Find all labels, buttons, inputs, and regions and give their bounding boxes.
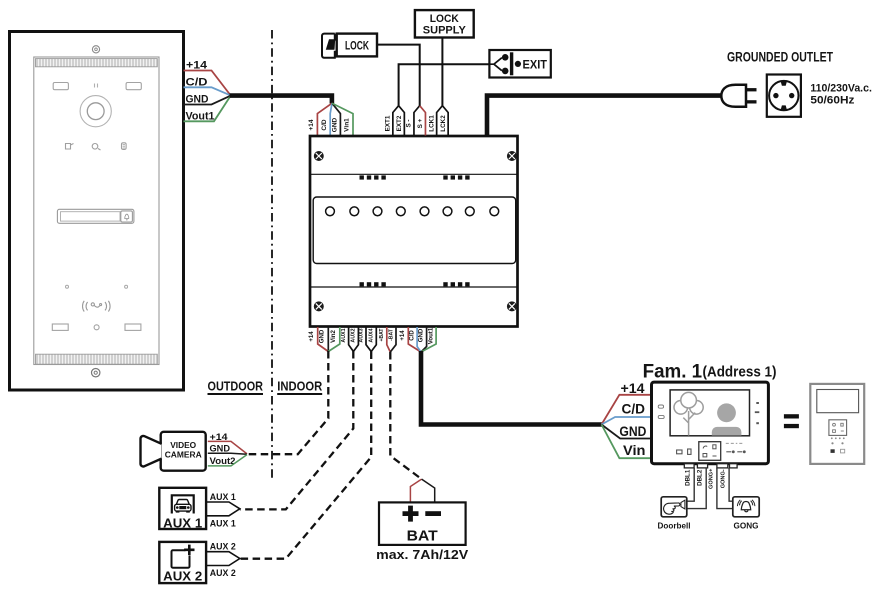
svg-text:INDOOR: INDOOR: [277, 380, 322, 394]
wire: thick door bus to central unit: [230, 96, 332, 104]
svg-text:AUX 2: AUX 2: [163, 568, 202, 583]
door station speaker slots: [53, 83, 141, 90]
wire EXT pair to EXIT button: [399, 64, 490, 106]
wire: thick bus unit to monitor: [421, 351, 602, 425]
EXIT push-button icon: [489, 52, 521, 75]
monitor labels +14 C/D GND Vin: [619, 381, 646, 458]
wire Vout1 green from door station: [184, 96, 231, 121]
wire fan into unit top: C/D blue: [330, 103, 332, 135]
LOCK box: [337, 34, 377, 57]
screen tree graphic: [674, 392, 703, 435]
battery - black lead: [422, 479, 435, 502]
unit bottom divider line: [311, 286, 517, 288]
monitor wire +14 red: [602, 395, 652, 425]
door station name plate with bell button: [57, 209, 133, 223]
svg-text:C/D: C/D: [622, 401, 646, 416]
svg-text:SUPPLY: SUPPLY: [423, 25, 467, 37]
wire fan into unit top: GND black: [332, 103, 340, 135]
wire +14 red from door station: [184, 71, 231, 96]
unit top vent slots: [360, 175, 470, 179]
svg-text:GND: GND: [619, 424, 646, 439]
svg-text:+14: +14: [399, 330, 406, 341]
AUX1 flag terminal: [207, 502, 240, 516]
mains plug icon: [721, 85, 756, 107]
svg-text:C/D: C/D: [408, 330, 415, 341]
battery BAT box: [379, 502, 466, 545]
svg-text:LCK2: LCK2: [440, 115, 447, 132]
outdoor/indoor divider dash-dot line: [271, 30, 273, 478]
svg-text:AUX 1: AUX 1: [210, 518, 236, 528]
svg-text:LOCK: LOCK: [430, 13, 459, 25]
battery + red lead: [410, 479, 421, 502]
svg-text:Vout1: Vout1: [427, 327, 434, 344]
monitor screen: [670, 390, 749, 436]
GONG box: [733, 497, 759, 517]
dashed wire unit to video camera: [247, 351, 328, 454]
monitor button console: [699, 442, 721, 461]
wire DBL1: [687, 468, 694, 501]
terminal pair EXT1/EXT2: [393, 106, 405, 136]
camera labels +14 GND Vout2: [210, 432, 236, 466]
camera wire Vout2 green: [208, 455, 247, 466]
svg-text:GND: GND: [210, 444, 231, 454]
svg-text:+14: +14: [210, 432, 229, 442]
unit cover plate: [313, 197, 516, 264]
wire LCK pair to LOCK SUPPLY: [441, 37, 443, 106]
EXIT button box: [489, 50, 550, 78]
svg-text:Doorbell: Doorbell: [658, 521, 691, 531]
AUX2 flag terminal: [207, 552, 240, 566]
svg-text:+14: +14: [621, 381, 645, 396]
unit bottom vent slots: [360, 282, 470, 286]
monitor right buttons: [726, 443, 745, 452]
video camera box: [161, 432, 206, 471]
wire fan into unit top: +14 red: [317, 103, 332, 135]
monitor right markers: [755, 402, 760, 424]
svg-text:+14: +14: [308, 119, 315, 130]
door station top screw: [92, 46, 99, 53]
svg-text:AUX 2: AUX 2: [210, 542, 236, 552]
family monitor M1: [652, 382, 769, 464]
svg-text:+14: +14: [308, 331, 315, 342]
gong bell icon: [737, 500, 754, 512]
labels DBL1 DBL2 GONG+ GONG-: [685, 468, 727, 489]
svg-text:VIDEO: VIDEO: [170, 440, 196, 450]
unit bottom terminal group AUX1/AUX2: [349, 327, 359, 352]
AUX 2 add-device icon: [172, 545, 195, 568]
wire GND black from door station: [184, 96, 231, 105]
svg-text:Vin1: Vin1: [344, 118, 351, 132]
svg-text:max. 7Ah/12V: max. 7Ah/12V: [376, 547, 468, 562]
svg-text:LOCK: LOCK: [345, 41, 370, 53]
svg-text:AUX 1: AUX 1: [210, 492, 236, 502]
svg-text:Vin: Vin: [623, 443, 646, 458]
equals sign: [784, 414, 799, 418]
terminal pair LCK1/LCK2: [437, 106, 449, 136]
monitor bottom terminal tabs: [684, 464, 737, 468]
grounded outlet icon: [767, 75, 801, 117]
M2 lower buttons: [831, 449, 835, 453]
monitor side buttons: [677, 449, 691, 454]
svg-text:+BAT: +BAT: [379, 328, 385, 342]
door station outdoor panel: [10, 32, 184, 391]
battery plus symbol: [403, 506, 419, 522]
svg-text:GND: GND: [331, 117, 338, 132]
svg-text:AUX1: AUX1: [341, 328, 347, 342]
door station small holes: [66, 285, 128, 288]
unit bottom terminal group AUX3/AUX4: [366, 327, 376, 352]
svg-text:GND: GND: [318, 329, 325, 343]
Doorbell box: [661, 497, 687, 517]
door station camera lens: [80, 96, 111, 127]
LOCK SUPPLY box: [415, 10, 474, 37]
unit bottom terminal group +14/C/D/GND/Vout1: [408, 327, 436, 352]
doorbell hand icon: [664, 500, 685, 514]
unit bottom terminal group +BAT/-BAT: [387, 327, 396, 352]
monitor speaker slots: [658, 405, 664, 419]
svg-text:(Address 1): (Address 1): [703, 365, 777, 381]
AUX 2 box: [159, 542, 206, 583]
AUX 1 box: [159, 488, 206, 529]
alternative monitor M2: [810, 384, 864, 464]
svg-text:-BAT: -BAT: [389, 328, 395, 341]
wire C/D blue from door station: [184, 87, 231, 95]
camera wire GND black: [208, 452, 247, 455]
svg-text:BAT: BAT: [407, 529, 438, 545]
svg-text:S +: S +: [417, 118, 424, 128]
svg-text:AUX4: AUX4: [368, 328, 374, 342]
door bus labels +14 C/D GND Vout1: [186, 60, 215, 123]
svg-text:GONG: GONG: [734, 521, 759, 531]
monitor wire GND black: [602, 425, 652, 439]
monitor wire C/D blue: [602, 417, 652, 425]
svg-text:AUX 2: AUX 2: [210, 568, 236, 578]
battery minus symbol: [425, 511, 441, 516]
svg-text:AUX3: AUX3: [358, 328, 364, 342]
svg-text:Fam. 1: Fam. 1: [643, 360, 703, 382]
dashed wire unit to AUX1: [240, 351, 353, 509]
svg-text:DBL1: DBL1: [685, 469, 692, 486]
svg-text:EXT2: EXT2: [396, 115, 403, 131]
wire GONG-: [729, 468, 733, 501]
unit top divider line: [311, 173, 517, 175]
dashed wire unit to battery: [390, 352, 421, 479]
svg-text:50/60Hz: 50/60Hz: [810, 95, 854, 107]
door station indicator icons: [66, 143, 127, 150]
terminal pair S-/S+: [414, 106, 426, 136]
monitor wire Vin green: [602, 425, 652, 459]
wire: mains cable from unit to plug: [487, 96, 723, 136]
svg-text:EXT1: EXT1: [385, 115, 392, 131]
M2 button pad: [829, 420, 847, 436]
door station lower slots: [52, 324, 141, 330]
svg-text:LCK1: LCK1: [428, 115, 435, 132]
svg-text:C/D: C/D: [321, 119, 328, 131]
lock strike icon: [322, 34, 335, 58]
wire GONG+: [717, 468, 733, 509]
M2 small markers: [831, 437, 845, 444]
unit corner screws: [314, 151, 517, 311]
svg-text:OUTDOOR: OUTDOOR: [208, 380, 264, 394]
svg-text:EXIT: EXIT: [523, 59, 548, 71]
svg-text:AUX2: AUX2: [351, 328, 357, 342]
camera wire +14 red: [208, 441, 247, 454]
svg-text:AUX 1: AUX 1: [163, 515, 202, 530]
svg-text:GONG+: GONG+: [708, 468, 714, 489]
door station NFC reader icon: [83, 301, 111, 312]
central control unit U1: [310, 136, 518, 327]
svg-text:S -: S -: [406, 119, 413, 127]
door station bottom screw: [92, 369, 100, 377]
svg-text:GND: GND: [417, 328, 424, 342]
unit top terminal labels +14 C/D GND Vin1: [308, 117, 351, 132]
svg-text:DBL2: DBL2: [697, 469, 704, 486]
screen visitor avatar: [712, 403, 742, 435]
svg-text:110/230Va.c.: 110/230Va.c.: [810, 83, 872, 95]
video camera lens cone: [140, 436, 161, 467]
wire DBL2: [687, 468, 706, 509]
unit bottom terminal group +14/GND/Vin2: [318, 327, 340, 352]
wire S pair to LOCK: [377, 45, 420, 106]
svg-text:Vin2: Vin2: [330, 330, 337, 343]
svg-text:GROUNDED OUTLET: GROUNDED OUTLET: [727, 49, 834, 64]
M2 screen: [817, 390, 859, 413]
unit 8 button circles: [326, 207, 499, 216]
AUX 1 garage/car icon: [172, 495, 194, 513]
svg-text:GONG-: GONG-: [721, 469, 727, 488]
svg-text:CAMERA: CAMERA: [165, 449, 202, 459]
dashed wire unit to AUX2: [240, 352, 371, 559]
wire fan into unit top: Vin1 green: [332, 103, 353, 135]
